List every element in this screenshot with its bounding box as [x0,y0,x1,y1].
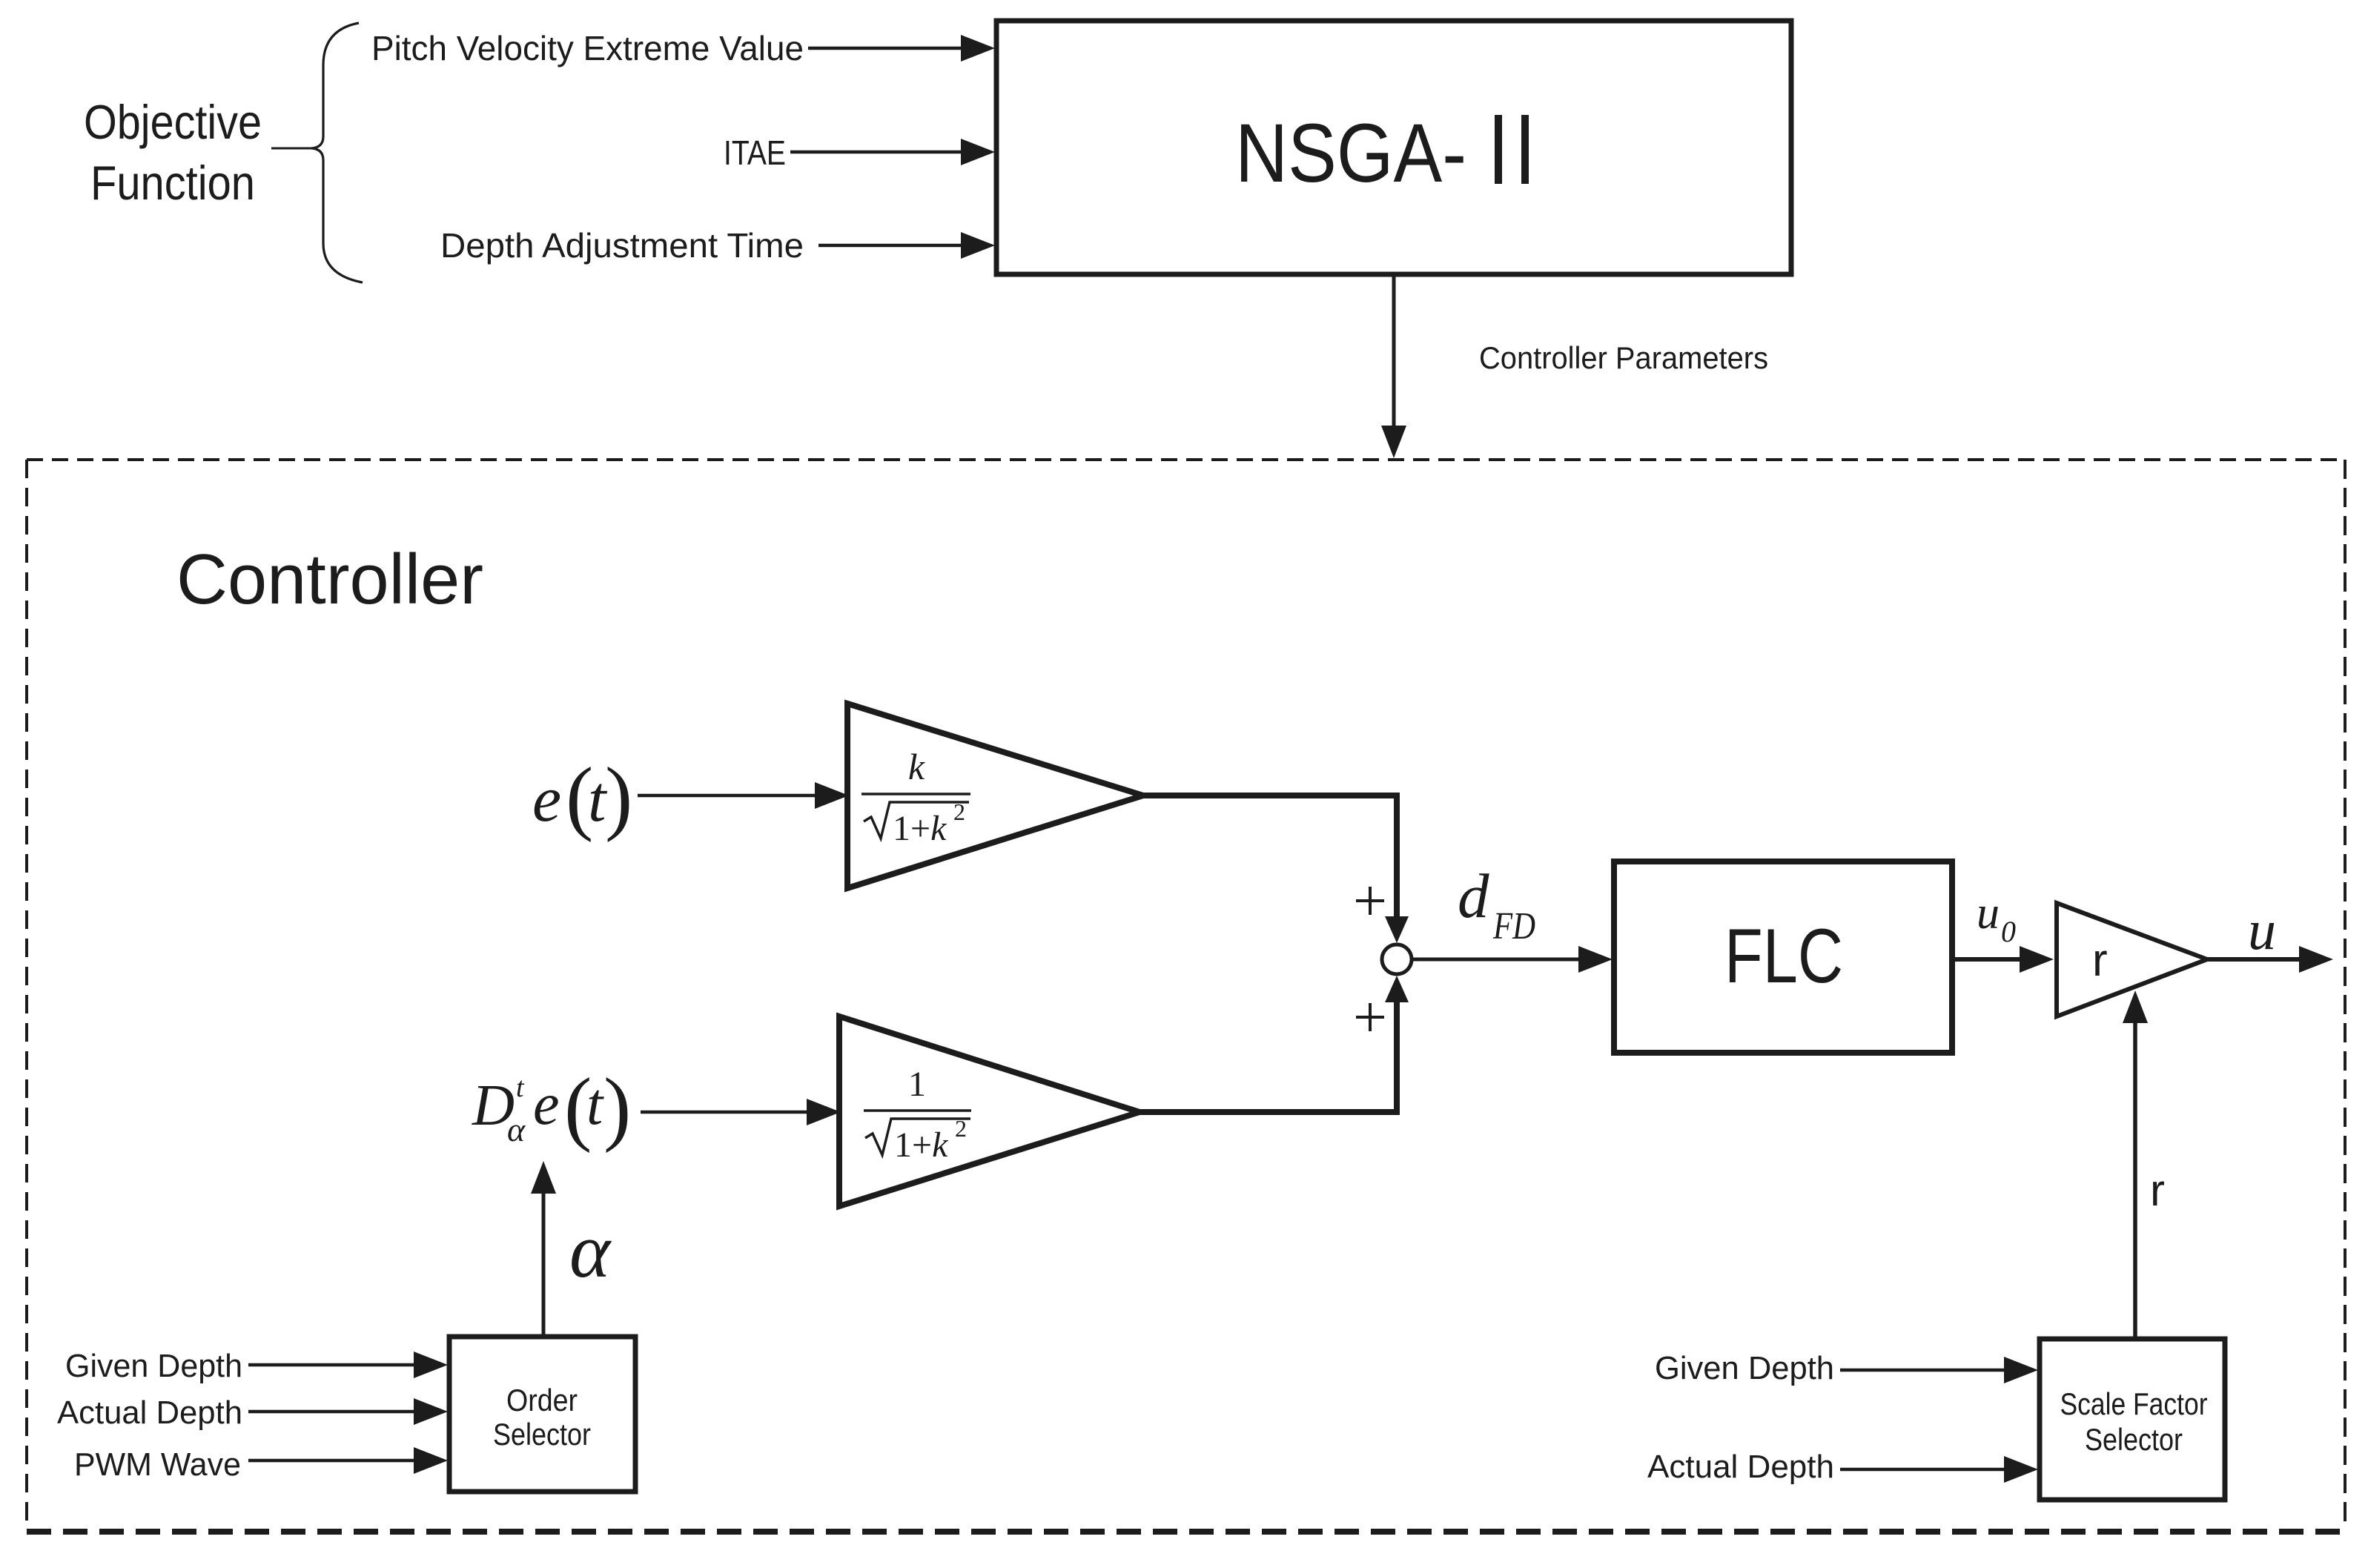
svg-text:t: t [586,1072,604,1137]
block FLC [1614,861,1952,1053]
arrowhead into summer (bottom) [1385,976,1409,1002]
svg-text:): ) [603,1062,631,1154]
svg-text:1+k: 1+k [894,1125,949,1165]
plus sign (top) [1356,887,1384,915]
svg-text:u: u [2248,899,2276,962]
controller boundary (dashed box) [27,460,2345,1532]
svg-text:e: e [533,1072,560,1137]
wire arrow D node to gain 1 [641,1099,841,1125]
wire arrow Actual Depth to Order Selector [248,1398,448,1425]
svg-text:Actual Depth: Actual Depth [57,1395,242,1431]
svg-text:α: α [569,1207,612,1294]
svg-text:Scale Factor: Scale Factor [2060,1386,2208,1421]
gain block r [2057,903,2207,1016]
svg-text:Order: Order [506,1383,578,1418]
wire arrow alpha (Order Selector to D node) [531,1161,556,1337]
gain block 1/sqrt(1+k^2) [839,1016,1140,1206]
svg-text:): ) [605,751,632,843]
svg-text:r: r [2092,935,2108,986]
block Scale Factor Selector [2040,1339,2225,1500]
svg-text:0: 0 [2001,915,2016,948]
svg-text:Controller Parameters: Controller Parameters [1479,340,1768,375]
wire arrow ITAE to NSGA-II [790,139,995,165]
svg-text:e: e [532,764,561,836]
node D_alpha^t e(t) [472,1062,631,1154]
svg-text:FLC: FLC [1724,913,1843,999]
wire arrow gain r to output u [2207,946,2333,973]
svg-text:Given Depth: Given Depth [65,1348,242,1384]
arrowhead into summer (top) [1385,916,1409,943]
svg-text:t: t [516,1072,525,1103]
svg-text:NSGA-: NSGA- [1235,107,1466,199]
brace [271,23,363,282]
wire arrow PWM Wave to Order Selector [248,1447,448,1474]
svg-text:2: 2 [953,798,965,825]
svg-text:Actual Depth: Actual Depth [1647,1449,1834,1485]
wire gain 1 to summer [1140,1001,1397,1112]
svg-text:1+k: 1+k [893,809,947,848]
wire arrow r (Scale Factor Selector to gain r) [2123,990,2148,1339]
svg-text:FD: FD [1492,905,1535,947]
svg-text:u: u [1977,888,2000,939]
svg-text:Given Depth: Given Depth [1655,1350,1834,1386]
svg-text:Selector: Selector [493,1417,591,1452]
wire arrow e(t) to gain k [638,782,849,809]
svg-text:k: k [908,746,925,787]
text Objective Function [84,95,262,210]
wire arrow Given Depth to Order Selector [248,1352,448,1378]
summing junction [1382,945,1412,974]
svg-text:d: d [1458,861,1489,931]
wire gain k to summer [1143,795,1397,919]
wire arrow summer to FLC [1412,946,1613,973]
svg-text:Function: Function [90,156,255,210]
svg-text:Selector: Selector [2085,1422,2183,1457]
svg-text:α: α [507,1111,526,1148]
svg-text:Objective: Objective [84,95,262,149]
block Order Selector [449,1337,635,1492]
svg-text:Depth Adjustment Time: Depth Adjustment Time [440,226,804,265]
wire arrow Depth Adjustment Time to NSGA-II [818,232,995,259]
node e(t) [532,751,632,843]
wire arrow Given Depth to Scale Factor Selector [1840,1357,2038,1383]
svg-text:Pitch Velocity Extreme Value: Pitch Velocity Extreme Value [371,29,804,67]
label u0 [1977,888,2016,948]
svg-text:2: 2 [955,1115,967,1142]
wire arrow Pitch Velocity to NSGA-II [808,35,995,62]
svg-text:ITAE: ITAE [724,133,786,172]
wire arrow Actual Depth to Scale Factor Selector [1840,1456,2038,1483]
block NSGA-II [996,21,1791,274]
wire arrow NSGA-II to Controller (controller parameters) [1381,276,1406,458]
svg-text:PWM Wave: PWM Wave [74,1446,241,1483]
svg-text:Controller: Controller [176,540,483,619]
svg-text:1: 1 [908,1065,926,1104]
label d_FD [1458,861,1535,947]
wire arrow FLC to gain r [1955,946,2054,973]
plus sign (bottom) [1356,1003,1384,1031]
svg-text:r: r [2150,1165,2165,1215]
gain block k/sqrt(1+k^2) [847,704,1143,888]
